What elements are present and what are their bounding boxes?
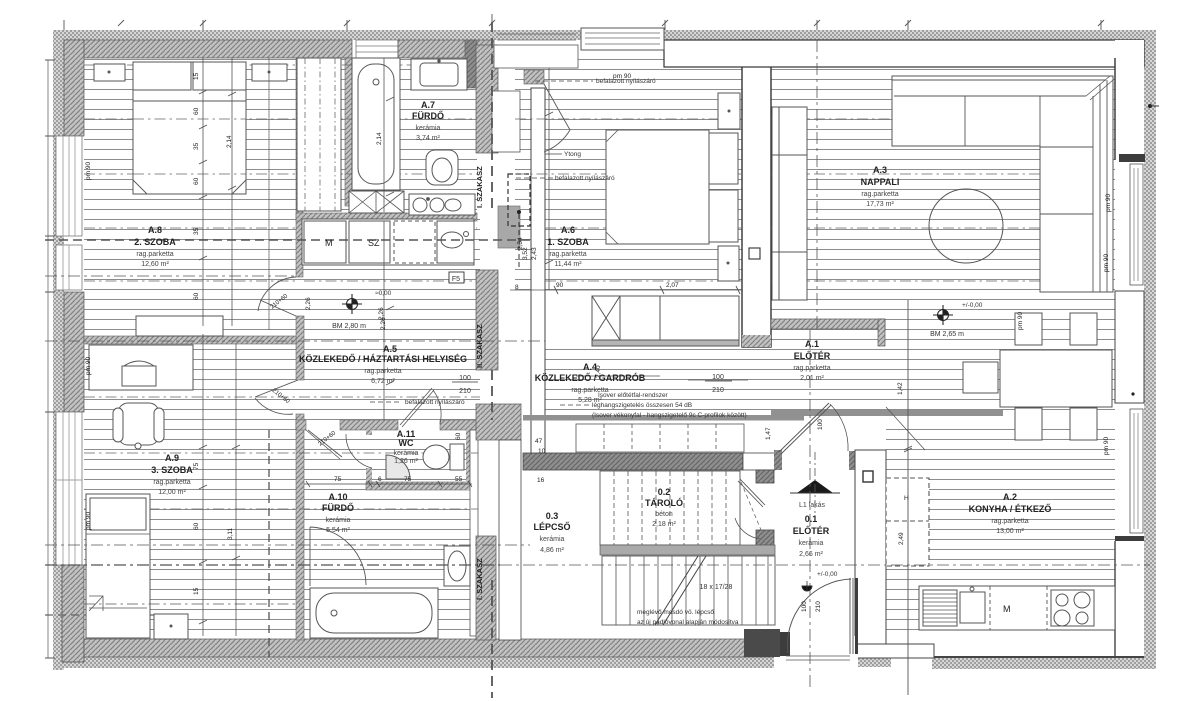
svg-text:pm 90: pm 90: [1103, 437, 1110, 455]
svg-text:35: 35: [193, 142, 200, 150]
svg-text:15: 15: [193, 587, 200, 595]
svg-text:2,43: 2,43: [531, 247, 538, 260]
svg-text:A.9: A.9: [165, 453, 179, 463]
svg-text:+/-0,00: +/-0,00: [817, 571, 838, 578]
svg-text:2. SZOBA: 2. SZOBA: [134, 237, 176, 247]
svg-text:léghangszigetelés összesen 54: léghangszigetelés összesen 54 dB: [592, 402, 692, 409]
svg-text:2,26: 2,26: [305, 297, 312, 310]
svg-text:H: H: [904, 495, 909, 502]
svg-text:A.10: A.10: [328, 492, 347, 502]
svg-text:100: 100: [817, 419, 824, 430]
svg-text:75: 75: [404, 476, 412, 483]
svg-text:kerámia: kerámia: [326, 517, 351, 524]
svg-text:pm 90: pm 90: [613, 73, 631, 80]
svg-text:BM 2,80 m: BM 2,80 m: [332, 323, 366, 330]
svg-text:2,66 m²: 2,66 m²: [799, 551, 823, 558]
svg-text:100: 100: [801, 601, 808, 612]
svg-text:0.2: 0.2: [658, 487, 671, 497]
svg-text:210: 210: [815, 601, 822, 612]
svg-text:≈0,00: ≈0,00: [375, 290, 392, 297]
svg-text:KÖZLEKEDŐ / GARDRÓB: KÖZLEKEDŐ / GARDRÓB: [535, 372, 646, 383]
svg-text:rag.parketta: rag.parketta: [364, 368, 401, 375]
svg-text:NAPPALI: NAPPALI: [861, 177, 900, 187]
svg-text:60: 60: [193, 292, 200, 300]
svg-text:L1 lakás: L1 lakás: [799, 502, 826, 509]
svg-text:pm 90: pm 90: [1105, 194, 1112, 212]
svg-text:rag.parketta: rag.parketta: [793, 365, 830, 372]
svg-text:2,26: 2,26: [378, 307, 385, 320]
svg-text:II. SZAKASZ: II. SZAKASZ: [475, 324, 484, 368]
svg-text:60: 60: [455, 432, 462, 440]
svg-text:ELŐTÉR: ELŐTÉR: [793, 525, 830, 536]
svg-text:4,86 m²: 4,86 m²: [540, 547, 564, 554]
svg-text:75: 75: [193, 462, 200, 470]
svg-text:KONYHA / ÉTKEZŐ: KONYHA / ÉTKEZŐ: [969, 503, 1052, 514]
svg-text:2,07: 2,07: [666, 282, 679, 289]
svg-text:kerámia: kerámia: [540, 536, 565, 543]
svg-text:pm 90: pm 90: [1017, 312, 1024, 330]
svg-text:kerámia: kerámia: [799, 540, 824, 547]
svg-text:75: 75: [334, 476, 342, 483]
svg-text:béton: béton: [655, 511, 673, 518]
svg-text:60: 60: [193, 522, 200, 530]
svg-text:rag.parketta: rag.parketta: [549, 251, 586, 258]
svg-text:11,44 m²: 11,44 m²: [554, 261, 582, 268]
svg-text:az új padlóvonal alapján módos: az új padlóvonal alapján módosítva: [637, 619, 739, 626]
svg-text:M: M: [1003, 604, 1011, 614]
svg-text:6,72 m²: 6,72 m²: [371, 378, 395, 385]
svg-text:210: 210: [712, 387, 724, 394]
svg-text:1,42: 1,42: [897, 382, 904, 395]
svg-text:FÜRDŐ: FÜRDŐ: [322, 502, 354, 513]
svg-text:1,26 m²: 1,26 m²: [394, 458, 418, 465]
svg-text:befalazott nyílászáró: befalazott nyílászáró: [405, 399, 465, 406]
svg-text:16: 16: [537, 477, 545, 484]
svg-text:1. SZOBA: 1. SZOBA: [547, 237, 589, 247]
svg-text:60: 60: [193, 177, 200, 185]
svg-text:2,14: 2,14: [376, 132, 383, 145]
svg-text:LÉPCSŐ: LÉPCSŐ: [533, 521, 570, 532]
svg-text:pm 90: pm 90: [85, 512, 92, 530]
svg-text:F5: F5: [452, 276, 460, 283]
svg-text:15: 15: [193, 72, 200, 80]
svg-text:A.6: A.6: [561, 225, 575, 235]
svg-text:befalazott nyílászáró: befalazott nyílászáró: [555, 175, 615, 182]
svg-text:12,60 m²: 12,60 m²: [141, 261, 169, 268]
svg-text:35: 35: [193, 227, 200, 235]
svg-text:Ytong: Ytong: [564, 151, 581, 158]
svg-text:TÁROLÓ: TÁROLÓ: [645, 497, 683, 508]
svg-text:55: 55: [455, 476, 463, 483]
svg-text:rag.parketta: rag.parketta: [153, 479, 190, 486]
svg-text:90: 90: [556, 282, 564, 289]
svg-text:47: 47: [535, 438, 543, 445]
svg-text:rag.parketta: rag.parketta: [861, 191, 898, 198]
svg-text:rag.parketta: rag.parketta: [991, 518, 1028, 525]
svg-text:meglévő mosdó vö. lépcső: meglévő mosdó vö. lépcső: [637, 609, 714, 616]
svg-text:kerámia: kerámia: [394, 450, 419, 457]
svg-text:BM 2,65 m: BM 2,65 m: [930, 331, 964, 338]
svg-text:I. SZAKASZ: I. SZAKASZ: [475, 558, 484, 600]
svg-text:2,40: 2,40: [595, 365, 602, 378]
svg-text:100: 100: [459, 375, 471, 382]
svg-text:A.7: A.7: [421, 100, 435, 110]
svg-text:2,18 m²: 2,18 m²: [652, 521, 676, 528]
svg-text:FÜRDŐ: FÜRDŐ: [412, 110, 444, 121]
svg-text:pm 90: pm 90: [85, 357, 92, 375]
svg-text:3,74 m²: 3,74 m²: [416, 135, 440, 142]
svg-text:SZ: SZ: [368, 238, 380, 248]
svg-text:2,14: 2,14: [226, 135, 233, 148]
svg-text:Isover előtétfal-rendszer: Isover előtétfal-rendszer: [598, 392, 669, 399]
svg-text:2,01 m²: 2,01 m²: [800, 375, 824, 382]
svg-text:17,73 m²: 17,73 m²: [866, 201, 894, 208]
svg-text:13,00 m²: 13,00 m²: [996, 528, 1024, 535]
svg-text:rag.parketta: rag.parketta: [136, 251, 173, 258]
svg-text:A.1: A.1: [805, 339, 819, 349]
svg-text:10: 10: [538, 448, 546, 455]
svg-text:(Isover vékonyfal - hangsziget: (Isover vékonyfal - hangszigetelő 9c C-p…: [592, 412, 747, 419]
svg-text:A.8: A.8: [148, 225, 162, 235]
svg-text:KÖZLEKEDŐ / HÁZTARTÁSI HELYISÉ: KÖZLEKEDŐ / HÁZTARTÁSI HELYISÉG: [299, 353, 467, 364]
svg-text:WC: WC: [399, 438, 414, 448]
svg-text:0.3: 0.3: [546, 511, 559, 521]
svg-text:1,47: 1,47: [765, 427, 772, 440]
svg-text:pm 90: pm 90: [1103, 254, 1110, 272]
svg-text:0.1: 0.1: [805, 514, 818, 524]
svg-text:8: 8: [515, 284, 519, 291]
svg-text:210: 210: [459, 388, 471, 395]
svg-text:+/-0,00: +/-0,00: [962, 302, 983, 309]
svg-text:3,11: 3,11: [227, 527, 234, 540]
svg-text:5,54 m²: 5,54 m²: [326, 527, 350, 534]
svg-text:100: 100: [712, 374, 724, 381]
svg-text:18 x 17/28: 18 x 17/28: [700, 584, 733, 591]
svg-text:kerámia: kerámia: [416, 125, 441, 132]
svg-text:pm 90: pm 90: [85, 162, 92, 180]
svg-text:12,00 m²: 12,00 m²: [158, 489, 186, 496]
svg-text:M: M: [325, 238, 333, 248]
svg-text:2,54: 2,54: [517, 237, 524, 250]
svg-text:A.2: A.2: [1003, 492, 1017, 502]
svg-text:ELŐTÉR: ELŐTÉR: [794, 350, 831, 361]
svg-text:60: 60: [193, 107, 200, 115]
svg-text:3. SZOBA: 3. SZOBA: [151, 465, 193, 475]
svg-text:6: 6: [378, 476, 382, 483]
svg-text:I. SZAKASZ: I. SZAKASZ: [475, 166, 484, 208]
svg-text:A.3: A.3: [873, 165, 887, 175]
svg-text:A.5: A.5: [383, 344, 397, 354]
svg-text:2,49: 2,49: [898, 532, 905, 545]
